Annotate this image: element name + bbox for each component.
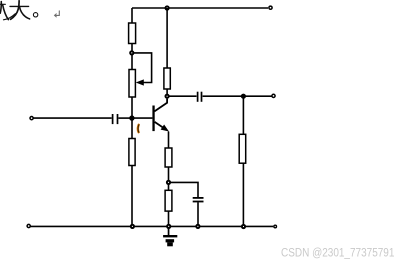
rail junction at R4 branch — [130, 224, 135, 229]
top supply rail wire — [132, 7, 268, 9]
wire: R5 to bottom rail — [168, 211, 170, 226]
wire: node A to potentiometer RP — [131, 55, 133, 70]
resistor RL (load) — [239, 134, 246, 163]
wire: C3 to bottom rail — [197, 202, 199, 226]
capacitor C1 (input coupling) — [113, 114, 118, 124]
resistor R3 (emitter, upper) — [165, 148, 172, 167]
wire: top rail junction down to R2 — [166, 8, 168, 68]
wiper arrow of RP — [136, 79, 144, 85]
paragraph return mark ↵ — [55, 11, 60, 17]
rail junction at C3 branch — [195, 224, 200, 229]
bottom-right terminal (open circle) — [274, 225, 277, 228]
orange cursor mark — [137, 125, 140, 132]
wire: C2 to output terminal — [203, 95, 272, 97]
ideographic full stop 。 — [33, 13, 37, 17]
output terminal (open circle, right) — [272, 94, 275, 97]
collector node C (junction) — [165, 94, 170, 99]
wire: output node down to RL — [242, 96, 244, 134]
character 大 — [10, 1, 30, 20]
wire: collector node to C2 — [170, 95, 197, 97]
ground symbol — [163, 228, 177, 246]
wire: emitter node to bypass capacitor — [171, 182, 199, 197]
capacitor C2 (output coupling) — [198, 92, 202, 102]
wire: emitter node to R5 — [168, 185, 170, 191]
wire: R3 to emitter node — [168, 167, 170, 181]
wire: R2 to collector node — [166, 89, 168, 94]
wire: R4 to bottom rail — [131, 166, 133, 227]
bottom-left terminal (open circle) — [27, 224, 30, 227]
text fragment "放大。" (partial 攵 of 放) — [0, 2, 15, 20]
rail junction at RL branch — [241, 224, 246, 229]
bottom ground rail wire — [30, 225, 273, 227]
wire: R1 to node A — [131, 44, 133, 52]
resistor R5 (emitter, lower) — [165, 190, 172, 211]
wire: base node down to R4 — [131, 121, 133, 139]
resistor R4 (lower bias) — [129, 139, 135, 166]
output node (junction) — [241, 94, 246, 99]
transistor Q1 — [152, 99, 169, 132]
wire: Q1 emitter down to R3 — [168, 132, 170, 149]
capacitor C3 (emitter bypass) — [193, 198, 204, 202]
junction node on top rail — [165, 5, 170, 10]
wire: RL to bottom rail — [242, 163, 244, 226]
resistor R2 (collector load) — [164, 68, 170, 89]
base node B (junction) — [129, 115, 134, 120]
wire: top rail to R1 — [131, 8, 133, 23]
wire: C1 to base node — [118, 117, 130, 119]
wire: wiper feedback from node A — [134, 53, 152, 83]
supply terminal (open circle, top right) — [269, 6, 272, 9]
rail junction at emitter branch — [166, 224, 171, 229]
wire: base node to Q1 base — [134, 117, 152, 119]
svg-text:CSDN @2301_77375791: CSDN @2301_77375791 — [281, 247, 394, 260]
resistor R1 — [129, 23, 136, 44]
wire: RP to base node — [131, 97, 133, 116]
potentiometer RP body — [129, 70, 135, 98]
emitter node E (junction) — [166, 180, 171, 185]
wire: input terminal to C1 — [33, 117, 111, 119]
node A (junction below R1) — [129, 50, 134, 55]
input terminal (open circle, left) — [30, 117, 33, 120]
